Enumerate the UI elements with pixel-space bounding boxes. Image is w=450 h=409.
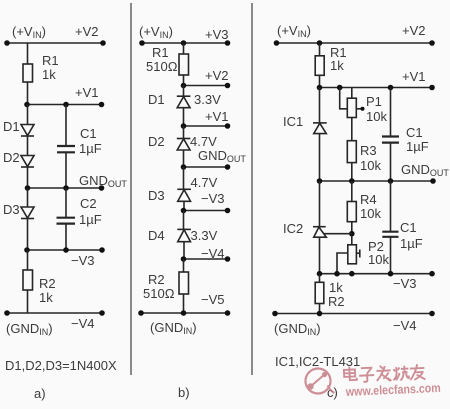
node GNDin terminal b bbox=[138, 310, 144, 316]
resistor R3 bbox=[351, 118, 353, 141]
wire -V3 rail b bbox=[184, 210, 228, 212]
separator line right bbox=[251, 3, 253, 375]
watermark logo dots bbox=[307, 383, 313, 389]
junction GNDout b bbox=[181, 164, 187, 170]
node -V4 terminal a bbox=[99, 310, 105, 316]
svg-text:1k: 1k bbox=[329, 280, 343, 295]
glyph you bbox=[410, 364, 426, 380]
junction +V1 b bbox=[181, 123, 187, 129]
svg-text:1µF: 1µF bbox=[79, 141, 102, 156]
svg-text:10k: 10k bbox=[360, 206, 381, 221]
wire top rail +V2 bbox=[7, 42, 103, 44]
svg-text:−V3: −V3 bbox=[393, 276, 417, 291]
junction +V1 C1 c bbox=[388, 85, 394, 91]
svg-text:−V5: −V5 bbox=[201, 292, 225, 307]
node GNDout terminal b bbox=[225, 164, 231, 170]
svg-text:510Ω: 510Ω bbox=[146, 59, 178, 74]
svg-text:a): a) bbox=[34, 386, 46, 401]
wire D1 anode a bbox=[27, 105, 29, 125]
svg-text:+V1: +V1 bbox=[402, 69, 426, 84]
wire IC2 ref connection bbox=[324, 233, 352, 235]
op-amp IC2 (TL431 shunt regulator) bbox=[319, 181, 321, 227]
svg-text:D4: D4 bbox=[148, 228, 165, 243]
junction -V3 IC2 c bbox=[317, 271, 323, 277]
junction +V1 C1 a bbox=[63, 102, 69, 108]
wire R1 top lead b bbox=[183, 43, 185, 54]
junction R2 bottom c bbox=[317, 311, 323, 317]
resistor R2 c bbox=[319, 274, 321, 283]
wire top rail b bbox=[142, 42, 228, 44]
junction -V3 C1 c bbox=[388, 271, 394, 277]
junction +V1 P1 wiper c bbox=[337, 85, 343, 91]
capacitor C1 a bbox=[65, 105, 67, 147]
wire -V3 rail a bbox=[26, 249, 103, 251]
junction R4 P2 ref node bbox=[349, 231, 355, 237]
op-amp IC1 (TL431 shunt regulator) bbox=[319, 88, 321, 123]
junction -V3 left a bbox=[24, 247, 30, 253]
separator line left bbox=[130, 3, 132, 375]
watermark chinese glyphs (drawn) bbox=[344, 363, 426, 383]
svg-text:3.3V: 3.3V bbox=[191, 228, 218, 243]
node +V1 terminal a bbox=[99, 102, 105, 108]
svg-text:b): b) bbox=[178, 385, 190, 400]
svg-text:D1: D1 bbox=[3, 119, 20, 134]
diode D3 bbox=[21, 207, 34, 218]
junction -V3 P2 bottom c bbox=[349, 271, 355, 277]
watermark elecfans bbox=[306, 363, 442, 399]
svg-text:D2: D2 bbox=[148, 134, 165, 149]
node GNDout terminal a bbox=[99, 185, 105, 191]
wire R1 bottom lead a bbox=[27, 82, 29, 105]
node (+VIN) terminal a bbox=[4, 40, 10, 46]
zener D1 b bbox=[183, 86, 185, 97]
svg-text:1µF: 1µF bbox=[406, 139, 429, 154]
potentiometer P1 bbox=[351, 88, 353, 99]
node GNDin terminal a bbox=[4, 310, 10, 316]
svg-text:R2: R2 bbox=[39, 276, 56, 291]
node +VIN terminal c bbox=[274, 40, 280, 46]
svg-text:10k: 10k bbox=[360, 158, 381, 173]
node +V2 terminal b bbox=[225, 83, 231, 89]
wire -V3 rail c bbox=[320, 273, 433, 275]
node GNDout terminal c bbox=[430, 178, 436, 184]
watermark logo circle bbox=[306, 369, 331, 394]
node -V3 terminal b bbox=[225, 208, 231, 214]
wire R1 bottom lead b bbox=[183, 75, 185, 86]
node -V3 terminal a bbox=[99, 247, 105, 253]
zener D4 b bbox=[183, 211, 185, 230]
svg-text:+V1: +V1 bbox=[75, 85, 99, 100]
resistor R2 b bbox=[179, 272, 189, 294]
svg-text:−V4: −V4 bbox=[71, 316, 95, 331]
svg-text:10k: 10k bbox=[366, 109, 387, 124]
wire GNDout rail c bbox=[320, 180, 434, 182]
diode D1 bbox=[21, 125, 34, 136]
wire D3 anode a bbox=[27, 188, 29, 207]
wire +V1 rail a bbox=[26, 104, 102, 106]
wire R1 bottom lead c bbox=[319, 75, 321, 87]
wire R1 top lead c bbox=[319, 43, 321, 56]
capacitor C1 upper c bbox=[390, 88, 392, 137]
svg-text:10k: 10k bbox=[368, 252, 389, 267]
svg-text:(+VIN): (+VIN) bbox=[12, 24, 46, 40]
resistor R1 c bbox=[315, 56, 324, 76]
svg-text:D3: D3 bbox=[3, 202, 20, 217]
wire R2 bottom lead b bbox=[183, 294, 185, 313]
svg-text:P1: P1 bbox=[366, 94, 382, 109]
potentiometer P2 bbox=[348, 245, 357, 264]
svg-text:R1: R1 bbox=[152, 45, 169, 60]
wire bottom rail c bbox=[275, 313, 432, 315]
svg-text:1µF: 1µF bbox=[400, 236, 423, 251]
svg-text:3.3V: 3.3V bbox=[194, 92, 221, 107]
svg-text:IC1: IC1 bbox=[283, 114, 303, 129]
zener D3 b bbox=[183, 167, 185, 189]
svg-text:+V3: +V3 bbox=[205, 27, 229, 42]
glyph fa bbox=[376, 365, 391, 381]
resistor R1 b bbox=[179, 54, 189, 75]
junction GNDout R3R4 c bbox=[349, 178, 355, 184]
node +V3 terminal b bbox=[225, 40, 231, 46]
svg-text:D1: D1 bbox=[148, 92, 165, 107]
svg-text:C1: C1 bbox=[400, 220, 417, 235]
svg-text:C1: C1 bbox=[406, 125, 423, 140]
svg-text:(+VIN): (+VIN) bbox=[277, 23, 311, 39]
wire bottom rail b bbox=[141, 312, 228, 314]
resistor R4 bbox=[351, 181, 353, 202]
capacitor C1 lower c bbox=[390, 181, 392, 232]
diode D2 bbox=[27, 136, 29, 156]
svg-text:IC1,IC2-TL431: IC1,IC2-TL431 bbox=[275, 354, 360, 369]
wire D2 to GNDout a bbox=[27, 167, 29, 188]
junction -V3 C2 a bbox=[63, 247, 69, 253]
svg-text:R1: R1 bbox=[42, 53, 59, 68]
svg-text:C1: C1 bbox=[80, 126, 97, 141]
wire D3 to -V3 a bbox=[27, 219, 29, 251]
svg-text:510Ω: 510Ω bbox=[143, 286, 175, 301]
svg-text:1µF: 1µF bbox=[79, 212, 102, 227]
glyph dian bbox=[344, 366, 357, 380]
node GNDin terminal c bbox=[272, 311, 278, 317]
zener D2 b bbox=[183, 126, 185, 139]
wire GNDout rail b bbox=[184, 166, 228, 168]
svg-text:4.7V: 4.7V bbox=[190, 134, 217, 149]
svg-text:R3: R3 bbox=[360, 143, 377, 158]
node -V5 terminal b bbox=[225, 310, 231, 316]
wire bottom rail a bbox=[7, 312, 102, 314]
glyph shao bbox=[393, 366, 409, 381]
wire GNDout rail a bbox=[28, 187, 103, 189]
watermark logo link bbox=[311, 375, 335, 394]
svg-text:R2: R2 bbox=[148, 272, 165, 287]
svg-text:(+VIN): (+VIN) bbox=[139, 24, 173, 40]
junction R2 bottom b bbox=[181, 310, 187, 316]
junction GNDout C a bbox=[63, 185, 69, 191]
svg-text:+V2: +V2 bbox=[402, 23, 426, 38]
svg-text:−V3: −V3 bbox=[71, 253, 95, 268]
svg-text:+V1: +V1 bbox=[205, 109, 229, 124]
junction +V2 b bbox=[181, 83, 187, 89]
junction -V4 b bbox=[181, 256, 187, 262]
svg-text:D1,D2,D3=1N400X: D1,D2,D3=1N400X bbox=[5, 358, 117, 373]
resistor R2 a bbox=[23, 270, 33, 290]
node +V1 terminal b bbox=[225, 123, 231, 129]
junction GNDout C1 c bbox=[388, 178, 394, 184]
svg-text:−V4: −V4 bbox=[393, 318, 417, 333]
wire +V2 rail b bbox=[184, 85, 228, 87]
svg-text:+V2: +V2 bbox=[205, 68, 229, 83]
svg-text:C2: C2 bbox=[80, 196, 97, 211]
svg-text:D2: D2 bbox=[3, 150, 20, 165]
wire +V1 rail c bbox=[320, 87, 433, 89]
wire R2 bottom lead a bbox=[27, 290, 29, 313]
wire R2 top lead a bbox=[27, 250, 29, 270]
node +V2 terminal c bbox=[429, 40, 435, 46]
svg-text:4.7V: 4.7V bbox=[191, 175, 218, 190]
node -V4 terminal b bbox=[225, 256, 231, 262]
svg-text:−V3: −V3 bbox=[201, 191, 225, 206]
svg-text:IC2: IC2 bbox=[283, 221, 303, 236]
wire R1 top lead a bbox=[27, 43, 29, 64]
junction GNDout left a bbox=[25, 185, 31, 191]
svg-text:1k: 1k bbox=[39, 290, 53, 305]
svg-text:R4: R4 bbox=[360, 192, 377, 207]
svg-text:1k: 1k bbox=[330, 58, 344, 73]
wire R2 top lead b bbox=[183, 259, 185, 272]
glyph zi bbox=[359, 368, 375, 382]
junction -V3 b bbox=[181, 208, 187, 214]
junction R1 top b bbox=[181, 40, 187, 46]
node +V1 terminal c bbox=[429, 85, 435, 91]
junction R1 top c bbox=[317, 40, 323, 46]
junction +V1 left a bbox=[24, 102, 30, 108]
resistor R1 a bbox=[23, 64, 33, 82]
wire top rail c bbox=[277, 42, 433, 44]
svg-text:−V4: −V4 bbox=[201, 246, 225, 261]
svg-text:D3: D3 bbox=[148, 188, 165, 203]
svg-text:R2: R2 bbox=[328, 294, 345, 309]
junction -V3 P2 wiper c bbox=[334, 271, 340, 277]
node -V4 terminal c bbox=[429, 311, 435, 317]
node +VIN terminal b bbox=[139, 40, 145, 46]
svg-text:1k: 1k bbox=[42, 67, 56, 82]
junction GNDout IC c bbox=[317, 178, 323, 184]
junction +V1 IC1 c bbox=[317, 85, 323, 91]
wire +V1 rail b bbox=[184, 125, 228, 127]
node +V2 terminal a bbox=[100, 40, 106, 46]
node -V3 terminal c bbox=[429, 271, 435, 277]
wire -V4 rail b bbox=[184, 258, 228, 260]
capacitor C2 a bbox=[65, 188, 67, 218]
svg-text:+V2: +V2 bbox=[75, 24, 99, 39]
